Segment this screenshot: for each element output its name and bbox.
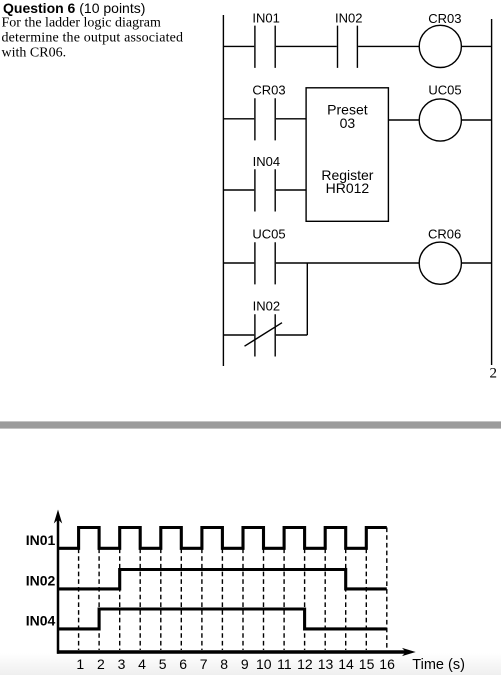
wire rung3 to right rail bbox=[461, 262, 491, 264]
svg-text:10: 10 bbox=[256, 656, 272, 672]
svg-text:5: 5 bbox=[159, 656, 167, 672]
y axis arrowhead bbox=[54, 510, 62, 524]
svg-text:8: 8 bbox=[220, 656, 228, 672]
svg-text:IN01: IN01 bbox=[26, 532, 56, 548]
dashed gridlines t=1..15 bbox=[79, 528, 387, 651]
coil CR06 bbox=[419, 242, 461, 284]
timer box Preset 03 / Register HR012 bbox=[306, 88, 388, 222]
contact IN02 normally-closed bbox=[255, 314, 275, 356]
wire timer box to coil bbox=[388, 119, 419, 121]
svg-text:Time (s): Time (s) bbox=[412, 657, 465, 673]
svg-text:IN02: IN02 bbox=[26, 572, 56, 588]
contact CR03 bbox=[255, 98, 275, 140]
svg-text:IN04: IN04 bbox=[26, 613, 56, 629]
signal IN01 waveform bbox=[58, 528, 387, 549]
wire rung2 to right rail bbox=[461, 119, 491, 121]
svg-text:16: 16 bbox=[379, 656, 395, 672]
svg-text:IN04: IN04 bbox=[253, 154, 280, 169]
svg-text:7: 7 bbox=[200, 656, 208, 672]
svg-text:CR03: CR03 bbox=[252, 83, 285, 98]
x axis arrowhead bbox=[402, 648, 416, 656]
svg-text:CR03: CR03 bbox=[428, 11, 461, 26]
svg-text:with CR06.: with CR06. bbox=[2, 46, 67, 61]
svg-text:Question 6 (10 points): Question 6 (10 points) bbox=[3, 0, 145, 16]
wire IN04 branch left bbox=[223, 189, 254, 191]
svg-text:1: 1 bbox=[76, 656, 84, 672]
svg-text:For the ladder logic diagram: For the ladder logic diagram bbox=[2, 15, 162, 30]
wire branch join vertical bbox=[306, 263, 308, 335]
right power rail bbox=[491, 19, 493, 365]
NC slash bbox=[245, 323, 283, 347]
svg-text:2: 2 bbox=[97, 656, 105, 672]
coil UC05 bbox=[419, 99, 461, 141]
wire NC branch to join bbox=[276, 334, 307, 336]
svg-text:03: 03 bbox=[340, 115, 356, 131]
signal IN04 waveform bbox=[58, 609, 387, 629]
wire rung1 right bbox=[358, 45, 419, 47]
svg-text:9: 9 bbox=[241, 656, 249, 672]
svg-text:UC05: UC05 bbox=[252, 227, 285, 242]
wire rung1 mid bbox=[276, 45, 337, 47]
wire rung3 left bbox=[223, 262, 254, 264]
svg-text:12: 12 bbox=[297, 656, 313, 672]
y axis bbox=[57, 520, 60, 654]
x axis bbox=[57, 650, 406, 654]
svg-text:IN02: IN02 bbox=[335, 11, 362, 26]
wire rung2 to timer box bbox=[276, 118, 306, 120]
svg-text:HR012: HR012 bbox=[326, 180, 370, 196]
svg-text:2: 2 bbox=[490, 365, 498, 381]
gray separator bar bbox=[0, 421, 501, 428]
wire rung3 to coil bbox=[276, 262, 419, 264]
svg-text:IN01: IN01 bbox=[252, 11, 279, 26]
contact IN01 bbox=[255, 26, 275, 68]
contact IN02 bbox=[338, 26, 358, 68]
svg-text:determine the output associate: determine the output associated bbox=[2, 31, 184, 46]
svg-text:6: 6 bbox=[179, 656, 187, 672]
wire rung1 to right rail bbox=[461, 45, 491, 47]
signal IN02 waveform bbox=[58, 570, 387, 589]
wire rung2 left bbox=[223, 118, 254, 120]
svg-text:11: 11 bbox=[277, 656, 292, 672]
coil CR03 bbox=[419, 25, 461, 67]
svg-text:UC05: UC05 bbox=[428, 83, 461, 98]
dashed gridline t=16 bbox=[386, 528, 388, 651]
contact IN04 bbox=[255, 169, 275, 211]
svg-text:IN02: IN02 bbox=[253, 299, 280, 314]
svg-text:14: 14 bbox=[338, 656, 354, 672]
wire IN04 branch to timer box bbox=[276, 189, 306, 191]
left power rail bbox=[222, 15, 224, 366]
axis tick numbers bbox=[76, 656, 395, 672]
svg-text:4: 4 bbox=[138, 656, 146, 672]
wire rung1 left bbox=[223, 45, 254, 47]
contact UC05 bbox=[255, 242, 275, 284]
svg-text:13: 13 bbox=[318, 656, 334, 672]
svg-text:15: 15 bbox=[359, 656, 375, 672]
svg-text:3: 3 bbox=[118, 656, 126, 672]
svg-text:CR06: CR06 bbox=[428, 227, 461, 242]
wire NC branch left bbox=[223, 334, 254, 336]
timing diagram bbox=[57, 520, 406, 654]
